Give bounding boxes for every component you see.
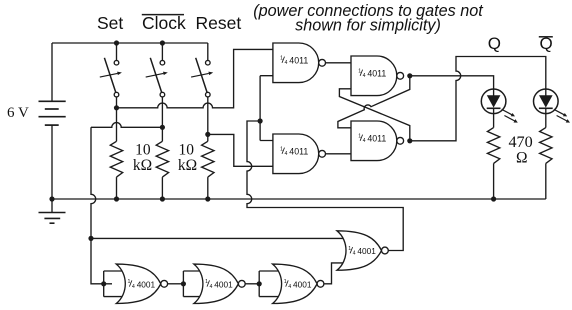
- switch Reset: [191, 43, 213, 141]
- svg-text:Q: Q: [488, 34, 501, 53]
- wire U2b output to U1b input: [326, 153, 352, 155]
- svg-text:6 V: 6 V: [7, 105, 29, 121]
- svg-text:4001: 4001: [357, 246, 376, 256]
- wire U1a output to U1b input (cross couple): [338, 76, 410, 128]
- svg-text:kΩ: kΩ: [133, 157, 152, 174]
- resistor R3 10 kOhm: [202, 141, 214, 199]
- wire U1b output to U1a input (cross couple): [339, 89, 409, 141]
- NAND gate U2b (1/4 4011): [273, 134, 326, 174]
- wire ground bus: [52, 198, 546, 200]
- wire U1b output to LED Qbar: [410, 57, 546, 141]
- svg-text:470: 470: [508, 133, 532, 151]
- wire U2a output to U1a input: [326, 62, 352, 64]
- svg-text:4: 4: [363, 73, 366, 79]
- NOR gate U3b (1/4 4001): [194, 264, 245, 303]
- label 10 kOhm (R1): [133, 142, 152, 175]
- svg-text:4: 4: [285, 60, 288, 66]
- NAND gate U2a (1/4 4011): [273, 43, 326, 83]
- junction U1b output: [407, 138, 412, 143]
- junction R3 / ground bus: [205, 196, 210, 201]
- wire U3c output to U4d input: [324, 263, 352, 284]
- wire U1a output to LED Q: [410, 76, 494, 96]
- wire Reset node to gate U2b input: [208, 134, 276, 166]
- NOR gate U3c (1/4 4001): [273, 264, 324, 303]
- LED D2 (Qbar): [534, 89, 570, 128]
- junction Clock switch / line: [160, 125, 165, 130]
- svg-text:shown for simplicity): shown for simplicity): [295, 17, 441, 35]
- label Q: [488, 34, 501, 53]
- svg-text:4011: 4011: [289, 56, 308, 66]
- NAND gate U1a (1/4 4011): [351, 56, 404, 96]
- label Qbar (with overline): [539, 34, 553, 53]
- junction NOR U3c input: [257, 281, 262, 286]
- NOR gate U3a (1/4 4001): [116, 264, 167, 303]
- label 6 V: [7, 105, 29, 121]
- junction battery / ground bus: [49, 196, 54, 201]
- note power connections: [253, 2, 484, 35]
- ground: [39, 199, 66, 223]
- svg-text:4001: 4001: [293, 279, 312, 289]
- label Clock (with overline): [142, 13, 186, 33]
- svg-text:4: 4: [285, 151, 288, 157]
- svg-text:10: 10: [179, 142, 195, 159]
- junction R4 / ground bus: [491, 196, 496, 201]
- svg-text:4011: 4011: [289, 147, 308, 157]
- junction top bus / Set: [114, 40, 119, 45]
- junction clock delay tap: [88, 236, 93, 241]
- label 470 Ohm: [508, 133, 532, 167]
- svg-text:Set: Set: [97, 13, 123, 33]
- label Set: [97, 13, 123, 33]
- NAND gate U1b (1/4 4011): [351, 121, 404, 161]
- resistor R1 10 kOhm: [110, 141, 122, 199]
- NOR gate U4d (1/4 4001): [337, 231, 388, 270]
- wire Set node to gate U2a input: [117, 49, 277, 107]
- junction NOR U3a input: [101, 281, 106, 286]
- svg-text:4: 4: [363, 138, 366, 144]
- wire U3b output to U3c: [246, 283, 260, 285]
- svg-text:4001: 4001: [214, 279, 233, 289]
- junction R2 / ground bus: [160, 196, 165, 201]
- svg-text:10: 10: [135, 142, 151, 159]
- switch Set: [100, 43, 122, 141]
- wire Clock node down to NOR chain: [91, 127, 112, 283]
- wire U3a output to U3b: [168, 283, 183, 285]
- battery 6 V: [39, 43, 66, 199]
- svg-text:4: 4: [132, 284, 135, 290]
- wire enable node to U2a/U2b inputs: [260, 76, 276, 141]
- wire NOR U3a input tie: [104, 271, 122, 297]
- wire NOR U3b input tie: [183, 271, 202, 297]
- svg-text:4: 4: [353, 251, 356, 257]
- resistor R5 470 Ohm (Qbar): [540, 128, 552, 199]
- label Reset: [196, 13, 242, 33]
- junction U1a output: [407, 73, 412, 78]
- wire top bus (battery + to switches): [52, 42, 208, 44]
- junction top bus / Clock: [160, 40, 165, 45]
- junction enable node: [258, 118, 263, 123]
- label 10 kOhm (R2): [178, 142, 197, 175]
- svg-text:Reset: Reset: [196, 13, 242, 33]
- switch Clock: [146, 43, 168, 141]
- wire delay line to gate U4d input: [91, 237, 352, 239]
- junction R1 / ground bus: [114, 196, 119, 201]
- svg-text:4: 4: [288, 284, 291, 290]
- svg-text:4011: 4011: [367, 134, 386, 144]
- resistor R2 10 kOhm: [156, 141, 168, 199]
- svg-text:Ω: Ω: [516, 150, 528, 167]
- wire Clock node branch: [91, 123, 162, 128]
- wire gate U4d output to enable node: [247, 121, 403, 251]
- LED D1 (Q): [481, 89, 517, 128]
- svg-text:4011: 4011: [367, 69, 386, 79]
- svg-text:kΩ: kΩ: [178, 157, 197, 174]
- junction Reset switch / line: [205, 132, 210, 137]
- junction NOR U3b input: [181, 281, 186, 286]
- svg-text:4001: 4001: [137, 279, 156, 289]
- junction Set switch / line: [114, 105, 119, 110]
- resistor R4 470 Ohm (Q): [487, 128, 499, 199]
- wire NOR U3c input tie: [259, 271, 278, 297]
- svg-text:Clock: Clock: [142, 13, 186, 33]
- svg-text:4: 4: [210, 284, 213, 290]
